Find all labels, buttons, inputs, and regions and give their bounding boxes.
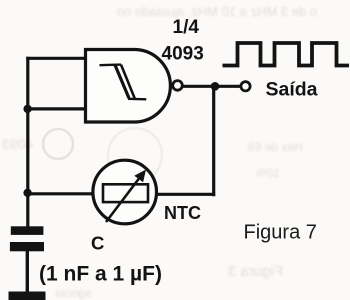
node: output junction dot [211,82,220,91]
svg-text:1/4: 1/4 [173,17,200,38]
node: junction at NTC branch [23,189,31,197]
faint bleed-through 10% [256,166,280,180]
wire: top input [26,57,85,60]
faint bleed-through bottom left [55,286,92,300]
faint bleed-through Figura 3 [228,263,283,280]
thermistor arrow shaft [106,179,139,223]
svg-text:C: C [91,233,104,254]
svg-text:Saída: Saída [266,79,318,101]
op-amp gate U1: 4093 NAND body [86,50,171,123]
faint bleed-through text top [84,4,350,19]
node: junction at lower gate input [23,105,31,113]
svg-text:4093: 4093 [162,44,204,65]
thermistor arrow head [134,170,146,183]
schmitt trigger hysteresis symbol bottom bar [128,98,146,101]
output inverter bubble [173,81,183,91]
capacitor C top plate [11,226,44,235]
ground bar at bottom edge [9,292,46,300]
wire: NTC left [26,192,94,195]
thermistor NTC outer circle [93,160,157,224]
wire: capacitor lower lead [26,251,29,293]
schmitt trigger hysteresis symbol top bar [100,63,122,66]
wire: output [183,85,242,88]
faint bleed-through text left middle [2,136,33,152]
wire: bottom input [26,107,85,110]
schmitt trigger hysteresis symbol right diagonal [121,65,135,99]
faint bleed-through text right middle [248,140,303,154]
wire: left vertical bus [26,57,29,227]
wire: feedback vertical [212,86,215,196]
svg-text:(1 nF a 1 µF): (1 nF a 1 µF) [39,263,162,286]
square wave output waveform [223,43,350,66]
capacitor C bottom plate [10,242,44,251]
wire: NTC right [156,193,216,196]
faint bleed-through circle [43,129,73,159]
thermistor NTC body rectangle [103,184,148,202]
output open terminal [241,82,250,91]
svg-text:Figura 7: Figura 7 [244,222,317,244]
schmitt trigger hysteresis symbol left diagonal [115,65,129,98]
svg-text:NTC: NTC [164,203,201,223]
